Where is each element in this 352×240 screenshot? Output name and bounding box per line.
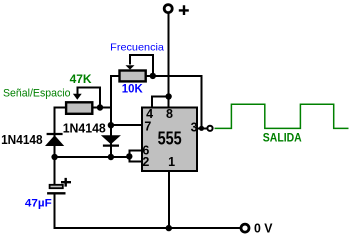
node: pin 7 / diode junction (108, 122, 114, 128)
wire: pin 1 to rail (168, 172, 170, 228)
potentiometer R1 wiper arrow (73, 94, 82, 100)
wire: V+ vertical from + terminal to pin 8 (168, 13, 170, 107)
svg-text:8: 8 (166, 107, 173, 121)
node: D1 / C1 junction (51, 154, 57, 160)
wire: 47K wiper loop (77, 87, 100, 107)
node: pin3 / 10K net junction (199, 126, 204, 131)
label: + at capacitor (61, 178, 71, 187)
node: D2 bottom junction (108, 154, 114, 160)
svg-text:Señal/Espacio: Señal/Espacio (3, 88, 71, 100)
diode D1 1N4148 (pointing up) (47, 133, 63, 135)
svg-text:7: 7 (144, 119, 151, 133)
wire: pin 6 / pin 2 connector (129, 150, 141, 161)
capacitor C1 47µF positive plate (50, 185, 63, 188)
node: pin1 / rail junction (166, 225, 172, 231)
capacitor C1 negative plate (47, 192, 65, 194)
label: + at V+ terminal (179, 5, 189, 15)
wire: 47K left terminal down to diode D1 (55, 108, 66, 185)
wire: output square wave SALIDA (215, 104, 349, 128)
diode D2 1N4148 (pointing down) (101, 135, 121, 144)
terminal: 0V (241, 224, 249, 232)
pin 3 stub (198, 127, 207, 129)
wire: 47K right terminal (92, 107, 111, 109)
svg-text:47K: 47K (70, 72, 92, 86)
node: pin 6/2 junction (126, 153, 132, 159)
potentiometer R2 wiper arrow (126, 65, 135, 69)
svg-text:1N4148: 1N4148 (63, 122, 106, 136)
svg-text:10K: 10K (122, 82, 143, 96)
wire: pin 4 branch from V+ node (152, 97, 169, 108)
wire: 10K wiper loop (130, 55, 153, 76)
svg-text:47µF: 47µF (25, 198, 52, 210)
svg-text:0 V: 0 V (254, 222, 273, 236)
svg-text:2: 2 (142, 155, 149, 169)
wire: 10K left terminal down the common vertical (111, 76, 119, 157)
svg-text:3: 3 (191, 121, 198, 135)
wire: 10K right terminal to pin 3 net (146, 76, 202, 128)
potentiometer R2 10K body (120, 71, 146, 82)
svg-text:555: 555 (158, 127, 182, 148)
svg-text:SALIDA: SALIDA (263, 130, 302, 144)
wire: capacitor bottom to ground rail (55, 194, 240, 229)
svg-text:Frecuencia: Frecuencia (110, 41, 164, 53)
wire: control net horizontal (diodes to pins 6/2) (55, 156, 130, 158)
node: V+ / pin4 / pin8 junction (165, 93, 171, 99)
wire: pin 7 stub (111, 124, 141, 126)
op-amp U1: 555 timer body (142, 108, 197, 172)
svg-text:1N4148: 1N4148 (1, 133, 43, 147)
node: 10K wiper junction (150, 73, 156, 79)
potentiometer R1 47K body (66, 102, 92, 114)
terminal: pin 3 open circle (207, 126, 212, 131)
svg-text:1: 1 (168, 155, 175, 169)
node: 47K wiper junction (97, 104, 103, 110)
terminal: V+ (164, 5, 172, 13)
